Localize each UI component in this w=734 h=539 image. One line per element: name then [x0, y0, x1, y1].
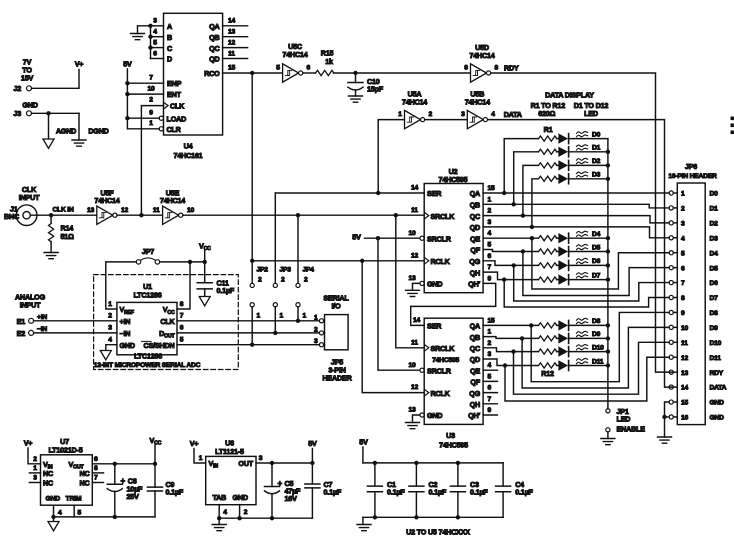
svg-text:2: 2: [281, 277, 285, 284]
junction C5 top: [270, 461, 274, 465]
wire U3 QD row (D11): [483, 359, 538, 366]
shift register U2 74HC595: [408, 167, 495, 293]
LED D6: [557, 258, 608, 270]
svg-text:74HC595: 74HC595: [439, 175, 468, 184]
svg-text:SER: SER: [427, 322, 442, 331]
svg-text:4: 4: [681, 235, 685, 242]
svg-text:D5: D5: [592, 244, 601, 251]
wire cap bank bottom rail: [363, 516, 503, 518]
wire JP3 bottom: [274, 307, 276, 333]
junction JP3: [273, 331, 277, 335]
svg-text:2: 2: [33, 456, 37, 463]
junction LED D1 branch: [512, 202, 516, 206]
junction RCLK: [250, 259, 254, 263]
svg-text:10: 10: [147, 85, 155, 92]
ground at JP6: [658, 437, 672, 443]
svg-text:15: 15: [488, 317, 496, 324]
junction ENP: [125, 81, 129, 85]
svg-text:GND: GND: [120, 341, 135, 350]
junction pin16 gnd: [662, 415, 666, 419]
svg-text:RDY: RDY: [504, 64, 519, 73]
svg-text:11: 11: [411, 339, 418, 346]
junction C11: [203, 260, 207, 264]
svg-text:QA: QA: [470, 189, 480, 198]
wire CLK line U1 pin7 to JP5-1: [177, 320, 319, 322]
svg-text:4: 4: [108, 337, 112, 344]
ground at U7 (triangle): [48, 517, 59, 531]
inverter U5B 74HC14: [461, 90, 495, 129]
svg-text:D0: D0: [710, 191, 719, 198]
wire QA-QD row 1 (QB to JP6/LED): [483, 204, 669, 208]
svg-text:CLK IN: CLK IN: [53, 207, 74, 214]
svg-text:16-PIN HEADER: 16-PIN HEADER: [668, 173, 717, 180]
svg-text:D2: D2: [710, 220, 719, 227]
svg-text:D8: D8: [710, 310, 719, 317]
wire LED D1 row: [514, 152, 539, 205]
wire U3 QC row (D10): [483, 348, 538, 352]
svg-text:620Ω: 620Ω: [538, 109, 555, 118]
junction VCC pin8: [188, 260, 192, 264]
wire U5A out to U5B in: [425, 119, 468, 121]
svg-text:1: 1: [108, 301, 112, 308]
capacitor C8 10uF 25V: [107, 464, 143, 517]
svg-text:GND: GND: [427, 411, 442, 420]
LED D5: [557, 244, 608, 256]
svg-text:JP6: JP6: [685, 162, 697, 171]
LED D8: [557, 318, 608, 330]
svg-text:6: 6: [681, 265, 685, 272]
junction JP4: [296, 319, 300, 323]
capacitor C7 0.1uF: [305, 463, 342, 518]
svg-text:1: 1: [199, 455, 203, 462]
ground at U2 GND pin13: [406, 283, 420, 296]
node 5V at cap bank: [359, 438, 368, 463]
junction bus D5: [606, 249, 610, 253]
unconnected stubs U3 QE-QH': [483, 370, 497, 415]
svg-text:D6: D6: [592, 258, 601, 265]
capacitor C3 0.1uF: [450, 463, 488, 517]
svg-text:CS/SHDN: CS/SHDN: [144, 341, 175, 350]
svg-text:1: 1: [257, 313, 261, 320]
junction D11 branch to header: [503, 363, 507, 367]
svg-text:D9: D9: [710, 325, 719, 332]
svg-text:74HC595: 74HC595: [439, 440, 468, 449]
resistor R15 1k: [316, 49, 334, 76]
junction RCO to RCLK: [250, 71, 254, 75]
wire QE-QH row 1 (QF): [483, 250, 538, 252]
svg-text:GND: GND: [233, 493, 248, 502]
svg-text:12: 12: [121, 207, 129, 214]
svg-text:0.1µF: 0.1µF: [515, 487, 533, 496]
svg-text:5: 5: [681, 250, 685, 257]
ADC U1 LTC1286: [108, 282, 184, 355]
svg-text:E1: E1: [17, 317, 26, 326]
wire LED D3 row: [532, 179, 539, 227]
wire JP2 bottom: [251, 307, 253, 345]
svg-text:12: 12: [681, 355, 689, 362]
wire E1 to U1 +IN: [34, 320, 117, 322]
junction LED D0 branch: [502, 191, 506, 195]
capacitor C5 47uF 16V: [265, 463, 302, 518]
svg-text:5: 5: [153, 39, 157, 46]
svg-text:LED: LED: [617, 414, 631, 423]
wire JP3 top: [274, 193, 276, 283]
svg-text:SER: SER: [427, 189, 442, 198]
svg-text:1: 1: [149, 120, 153, 127]
svg-text:13: 13: [87, 207, 95, 214]
svg-text:AGND: AGND: [56, 127, 76, 136]
svg-text:CLK: CLK: [160, 317, 175, 326]
wire CS line U1 pin5 to JP5-3: [177, 344, 319, 346]
resistor R3: [539, 163, 557, 168]
svg-text:QC: QC: [470, 212, 480, 221]
junction VCC C9: [153, 462, 157, 466]
svg-text:25V: 25V: [127, 492, 140, 501]
svg-text:SRCLK: SRCLK: [431, 212, 456, 221]
svg-text:DGND: DGND: [88, 127, 108, 136]
junction pin4: [51, 515, 55, 519]
wire D11 branch to JP6 pin12: [505, 357, 669, 401]
svg-text:QG: QG: [469, 389, 480, 398]
svg-text:74HC14: 74HC14: [402, 98, 427, 107]
node 5V at U6: [308, 439, 317, 463]
label D1 TO D12 LED: [574, 101, 609, 118]
junction U6 pin2: [237, 516, 241, 520]
svg-text:D3: D3: [710, 235, 719, 242]
svg-text:D11: D11: [592, 358, 604, 365]
header JP6 16-PIN: [668, 162, 726, 425]
inverter U5C 74HC14: [276, 42, 310, 82]
svg-text:INPUT: INPUT: [20, 301, 41, 310]
svg-text:LT1021D-5: LT1021D-5: [48, 445, 82, 454]
jumper JP3: [273, 267, 291, 320]
svg-text:0.1µF: 0.1µF: [470, 487, 488, 496]
wire 5V to U2 SRCLR: [365, 237, 420, 239]
svg-text:3: 3: [259, 455, 263, 462]
svg-text:9: 9: [488, 275, 492, 282]
svg-text:D1: D1: [710, 206, 719, 213]
junction 5V SRCLR: [376, 236, 380, 240]
svg-text:TRIM: TRIM: [66, 496, 82, 503]
junction D10 branch to header: [511, 349, 515, 353]
ground at U6 (bar): [212, 518, 226, 531]
svg-text:7: 7: [488, 264, 492, 271]
svg-text:J3: J3: [13, 109, 21, 118]
svg-text:QC: QC: [209, 44, 219, 53]
inverter U5D 74HC14: [464, 43, 498, 82]
svg-text:U3: U3: [446, 431, 455, 440]
junction D5 branch to header: [521, 249, 525, 253]
svg-text:ENABLE: ENABLE: [617, 424, 646, 433]
wire D4 branch to JP6 pin5: [532, 238, 669, 289]
svg-text:2: 2: [244, 509, 248, 516]
wire QA-QD row 0 (QA to JP6/LED): [483, 192, 669, 194]
wire JP6 pins15/16 to ground: [665, 402, 670, 437]
svg-text:14: 14: [681, 385, 689, 392]
svg-text:D3: D3: [592, 172, 601, 179]
ground at cap bank: [357, 517, 371, 530]
svg-text:D7: D7: [592, 272, 601, 279]
svg-text:10: 10: [681, 325, 689, 332]
svg-text:8: 8: [681, 295, 685, 302]
svg-text:SRCLR: SRCLR: [427, 234, 452, 243]
svg-text:12: 12: [411, 252, 419, 259]
wire U1 VCC pin8: [177, 262, 190, 309]
jumper JP1 LED ENABLE: [606, 407, 645, 433]
svg-text:+: +: [278, 479, 283, 488]
capacitor C10 15pF: [348, 73, 384, 96]
clipped dashed line at right edge: [731, 117, 734, 135]
junction bus D11: [606, 363, 610, 367]
wire QE-QH row 0 (QE): [483, 237, 538, 239]
resistor R4: [539, 176, 557, 181]
connector E2 (-IN): [17, 326, 48, 338]
svg-text:V+: V+: [190, 439, 199, 448]
junction on J3 wire: [46, 111, 50, 115]
svg-text:CLK: CLK: [170, 102, 185, 111]
svg-text:ENT: ENT: [167, 90, 182, 99]
wire U1 VREF to JP7: [106, 262, 137, 309]
svg-text:D11: D11: [710, 355, 722, 362]
svg-text:74HC595: 74HC595: [432, 357, 459, 364]
svg-text:3: 3: [33, 475, 37, 482]
svg-text:D7: D7: [710, 295, 719, 302]
inverter U5F 74HC14: [87, 189, 129, 225]
svg-text:NC: NC: [80, 479, 90, 488]
svg-text:5V: 5V: [359, 438, 368, 447]
ground AGND (open triangle): [43, 113, 76, 148]
junction bus D10: [606, 349, 610, 353]
svg-text:DATA: DATA: [710, 385, 727, 392]
svg-text:JP7: JP7: [142, 247, 154, 256]
svg-text:13: 13: [408, 407, 416, 414]
junction JP4 tap: [296, 213, 300, 217]
wire E2 to U1 -IN: [34, 332, 117, 334]
connector J3 (GND): [13, 101, 37, 119]
junction C1 top: [373, 461, 377, 465]
LED D7: [557, 272, 608, 284]
svg-text:74HC14: 74HC14: [94, 196, 119, 205]
wire QE-QH row 2 (QG): [483, 261, 538, 266]
svg-text:11: 11: [681, 340, 688, 347]
wire 5V rail to ENP/ENT/LOAD/CLR: [127, 69, 163, 129]
svg-text:D8: D8: [592, 318, 601, 325]
svg-text:QH: QH: [470, 400, 480, 409]
svg-text:QB: QB: [470, 201, 480, 210]
svg-text:3: 3: [314, 338, 318, 345]
svg-text:QD: QD: [209, 55, 219, 64]
wire to U3 SRCLK: [396, 215, 424, 348]
svg-text:RCLK: RCLK: [431, 257, 451, 266]
connector E1 (+IN): [17, 314, 48, 326]
svg-text:D2: D2: [592, 158, 601, 165]
junction LED D3 branch: [530, 225, 534, 229]
svg-text:D10: D10: [592, 344, 604, 351]
svg-text:11: 11: [153, 207, 160, 214]
svg-text:5: 5: [488, 242, 492, 249]
svg-text:A: A: [167, 22, 172, 31]
svg-text:5: 5: [180, 337, 184, 344]
capacitor C9 0.1uF: [148, 464, 184, 517]
svg-text:9: 9: [464, 65, 468, 72]
svg-text:5: 5: [78, 510, 82, 517]
wire D6 branch to JP6 pin7: [514, 265, 669, 301]
svg-text:6: 6: [180, 325, 184, 332]
svg-text:D6: D6: [710, 280, 719, 287]
junction D4 branch to header: [530, 236, 534, 240]
inverter U5A 74HC14: [398, 90, 432, 129]
ground at U3 GND pin13: [406, 415, 420, 429]
junction U5A tap: [376, 191, 380, 195]
svg-text:7: 7: [681, 280, 685, 287]
junction C2 bottom: [414, 515, 418, 519]
svg-text:8: 8: [180, 301, 184, 308]
LED D4: [557, 231, 608, 243]
junction U3 RCLK tap: [360, 259, 364, 263]
svg-text:5V: 5V: [352, 233, 361, 242]
svg-text:0.1µF: 0.1µF: [217, 286, 235, 295]
ground at U4 A input: [131, 26, 151, 40]
LED D2: [557, 158, 608, 170]
svg-text:51Ω: 51Ω: [61, 232, 75, 241]
node V+: [75, 60, 84, 69]
svg-text:3: 3: [108, 325, 112, 332]
svg-text:+IN: +IN: [120, 317, 131, 326]
wire D8 branch to JP6 pin9: [531, 312, 669, 381]
svg-text:GND: GND: [46, 496, 61, 503]
inverter U5E 74HC14: [153, 189, 195, 225]
resistor R8: [539, 277, 557, 282]
counter U4 74HC161: [147, 13, 247, 160]
svg-text:15pF: 15pF: [367, 85, 384, 94]
ground DGND (bar): [72, 113, 109, 146]
svg-text:13: 13: [681, 370, 689, 377]
wire QE-QH row 3 (QH): [483, 272, 538, 280]
svg-text:7: 7: [180, 313, 184, 320]
svg-text:3: 3: [488, 351, 492, 358]
ground at C10: [349, 96, 363, 102]
svg-text:7: 7: [488, 396, 492, 403]
junction C5 bottom: [270, 516, 274, 520]
svg-text:3: 3: [488, 219, 492, 226]
LED D1: [557, 145, 608, 157]
svg-text:74HC14: 74HC14: [465, 98, 490, 107]
svg-text:LTC1286: LTC1286: [133, 291, 161, 300]
ground at JP1: [601, 432, 615, 445]
svg-text:D4: D4: [710, 250, 719, 257]
svg-text:4: 4: [488, 362, 492, 369]
wire cap bank top rail: [363, 462, 503, 464]
svg-text:15V: 15V: [21, 74, 34, 83]
wire to U3 RCLK: [362, 261, 424, 393]
svg-text:12: 12: [228, 39, 236, 46]
capacitor C11 0.1uF: [197, 262, 235, 297]
wire U3 QA row (D8): [483, 324, 538, 326]
svg-text:0.1µF: 0.1µF: [387, 487, 405, 496]
node VCC: [199, 242, 211, 262]
svg-text:1: 1: [314, 314, 318, 321]
junction ENT: [125, 92, 129, 96]
svg-text:LED: LED: [584, 109, 598, 118]
wire U2 QH' cascade to U3 SER: [411, 283, 496, 325]
svg-text:R1: R1: [544, 125, 553, 134]
svg-text:10: 10: [408, 230, 416, 237]
shift register U3 74HC595: [408, 317, 495, 449]
resistor R11: [539, 349, 557, 354]
junction C8 bottom: [113, 515, 117, 519]
svg-text:14: 14: [413, 317, 421, 324]
svg-text:14: 14: [411, 185, 419, 192]
svg-text:2: 2: [314, 326, 318, 333]
svg-text:74HC161: 74HC161: [174, 151, 203, 160]
svg-text:5V: 5V: [308, 439, 317, 448]
voltage reference U7 LT1021D-5: [29, 437, 103, 517]
svg-text:12-BIT MICROPOWER SERIAL ADC: 12-BIT MICROPOWER SERIAL ADC: [94, 362, 201, 369]
svg-text:4: 4: [223, 509, 227, 516]
label R1 TO R12 620 ohm: [531, 101, 566, 118]
svg-text:D: D: [167, 55, 172, 64]
svg-text:QF: QF: [470, 378, 480, 387]
capacitor C4 0.1uF: [496, 463, 534, 517]
junction D9 branch to header: [520, 336, 524, 340]
resistor R12: [539, 363, 557, 368]
svg-text:JP3: JP3: [280, 267, 292, 274]
svg-text:6: 6: [94, 456, 98, 463]
junction U3 SRCLK tap: [394, 213, 398, 217]
svg-text:D5: D5: [710, 265, 719, 272]
wire U4 CLK pin2 down to clock net: [141, 106, 163, 216]
svg-text:8: 8: [495, 65, 499, 72]
resistor R14 51 ohm: [49, 215, 75, 252]
wire QA-QD row 2 (QC to JP6/LED): [483, 216, 669, 223]
svg-text:0.1µF: 0.1µF: [166, 488, 184, 497]
svg-text:10: 10: [408, 362, 416, 369]
svg-text:C: C: [167, 44, 172, 53]
svg-text:R12: R12: [541, 369, 554, 378]
wire J3 to grounds: [32, 112, 80, 114]
svg-text:QA: QA: [209, 22, 219, 31]
wire RDY net to JP6 pin13: [491, 64, 674, 373]
wire 5V to U3 SRCLR: [378, 238, 420, 370]
ground at C11 (triangle): [199, 297, 210, 306]
svg-text:RCLK: RCLK: [431, 389, 451, 398]
jumper JP7: [136, 247, 159, 264]
svg-text:QH′: QH′: [468, 411, 480, 420]
wire J2 to V+: [32, 70, 80, 89]
svg-text:14: 14: [228, 18, 236, 25]
wire JP4 bottom: [297, 307, 299, 321]
junction D7 branch to header: [502, 277, 506, 281]
junction C8 top: [113, 462, 117, 466]
svg-text:QH′: QH′: [468, 280, 480, 289]
junction C: [148, 45, 152, 49]
svg-text:E2: E2: [17, 329, 26, 338]
svg-text:8: 8: [94, 465, 98, 472]
svg-text:D0: D0: [592, 131, 601, 138]
wire JP2 top: [251, 261, 253, 284]
svg-text:4: 4: [488, 230, 492, 237]
svg-text:−IN: −IN: [120, 329, 131, 338]
svg-text:5: 5: [276, 65, 280, 72]
svg-text:4: 4: [491, 111, 495, 118]
svg-text:2: 2: [108, 313, 112, 320]
svg-text:4: 4: [153, 29, 157, 36]
wire U7 VOUT to VCC: [92, 463, 155, 465]
svg-text:74HC14: 74HC14: [469, 51, 494, 60]
svg-text:D1: D1: [592, 145, 601, 152]
jumper JP2: [250, 267, 268, 320]
wire A-D tie vertical: [150, 26, 152, 59]
